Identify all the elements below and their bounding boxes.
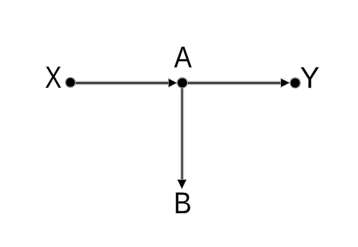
node Y dot <box>290 78 300 88</box>
wire A to Y <box>182 81 285 86</box>
arrowhead into Y <box>281 78 290 87</box>
node Y label <box>301 67 319 88</box>
node X dot <box>65 77 75 87</box>
node X label <box>45 67 61 88</box>
wire X to A <box>70 81 172 86</box>
node A label <box>174 47 192 68</box>
arrowhead into B <box>177 180 186 189</box>
node B label <box>176 193 190 214</box>
arrowhead into A <box>169 79 178 88</box>
node A dot <box>177 78 187 88</box>
wire A to B <box>180 83 184 184</box>
